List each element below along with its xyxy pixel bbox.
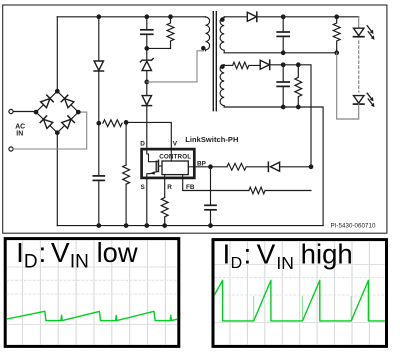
svg-text:S: S [141, 184, 146, 191]
U1 V pin internal [170, 149, 172, 161]
node: output2 load top [297, 63, 301, 67]
wire: zener to mid clamp node [146, 71, 148, 96]
wire: feedback resistor to output2 [265, 190, 311, 192]
capacitor C2 clamp [141, 17, 153, 60]
diode D1 line sense peak detector [94, 61, 103, 71]
diode D5 BP supply [268, 162, 311, 171]
wire: LED2 cathode return [337, 53, 359, 119]
wire: secondary2 return [224, 107, 323, 226]
svg-text:V: V [257, 238, 276, 269]
svg-text:FB: FB [186, 184, 195, 191]
wire: secondary1 top to diode [224, 16, 247, 18]
svg-text::: : [39, 237, 47, 268]
U1 MOSFET gate [155, 161, 157, 171]
U1 MOSFET gate lead [159, 165, 163, 167]
wire: diode D2 to D pin [146, 106, 148, 148]
wire: secondary2 top pin [224, 64, 232, 66]
svg-text:V: V [51, 237, 70, 268]
wire: line sense branch middle [98, 71, 100, 175]
op IC U1 LinkSwitch-PH body [142, 149, 195, 178]
wire: dashed LED string continuation [358, 41, 360, 92]
diode D2 series to drain [142, 96, 151, 106]
capacitor C5 BP [205, 167, 216, 226]
svg-text:R: R [167, 184, 172, 191]
bridge diode bottom-right [61, 116, 74, 129]
node: BP node [209, 165, 213, 169]
wire: FB pin to feedback resistor [183, 179, 249, 191]
node: S at rail [145, 224, 149, 228]
U1 MOSFET source arrow [147, 171, 159, 177]
wire: divider node to V pin [126, 122, 171, 147]
wire: bridge - down to bottom rail [56, 133, 58, 226]
capacitor C4 output2 [277, 65, 289, 107]
wire: divider node down [125, 122, 127, 165]
U1 R pin internal [164, 175, 166, 178]
node: bus at line-sense branch [97, 15, 101, 19]
svg-text:D: D [24, 252, 38, 273]
wire: output2 positive [270, 65, 311, 167]
wire: S pin to rail [146, 179, 148, 226]
node: output2 to BP/FB junction [309, 165, 313, 169]
node: bus at clamp resistor [169, 15, 173, 19]
zener VR1 clamp [140, 59, 153, 71]
resistor R4 bleeder [333, 17, 340, 53]
U1 FB pin internal [182, 175, 184, 178]
svg-text:D: D [231, 255, 243, 272]
resistor R8 feedback [249, 187, 265, 194]
resistor R2 divider lower [123, 165, 130, 184]
wire: R pin stub [164, 179, 166, 198]
scope panel 1 frame [5, 239, 179, 347]
resistor R1 line sense horizontal [103, 120, 122, 127]
node: output1 cap top [281, 15, 285, 19]
scope panel 2 label [223, 238, 353, 273]
resistor R5 output2 series [233, 62, 260, 69]
resistor R6 output2 load [295, 65, 302, 107]
terminal: AC input lower [9, 147, 13, 151]
node: R7 at rail [163, 224, 167, 228]
node: output2 cap top [281, 63, 285, 67]
svg-text:LinkSwitch-PH: LinkSwitch-PH [185, 135, 238, 144]
wire: left vertical from bus to bridge + [56, 17, 58, 91]
svg-text:V: V [173, 140, 178, 147]
svg-text:I: I [16, 237, 24, 268]
wire: clamp RC junction [147, 47, 171, 49]
resistor R9 BP supply [227, 163, 268, 170]
node: bulk cap at rail [97, 224, 101, 228]
wire: R2 to rail [125, 184, 127, 225]
wire: lower AC lead to bridge right corner [13, 112, 87, 149]
wire: line sense branch upper [98, 17, 100, 61]
node: sense divider tap left [97, 121, 101, 125]
transformer T1 primary winding [202, 17, 210, 51]
wire: BP pin to node [195, 166, 227, 168]
scope trace 2: drain current at high input voltage [205, 280, 385, 321]
wire: output1 positive rail [257, 16, 359, 18]
node: C5 at rail [209, 224, 213, 228]
node: clamp mid node [145, 80, 149, 84]
transformer T1 secondary 2 [220, 65, 224, 107]
wire: secondary1 return [224, 52, 337, 54]
LED1 [354, 26, 375, 40]
terminal: AC input upper [9, 109, 13, 113]
node: output1 cap bottom [281, 51, 285, 55]
node: R2 at rail [124, 224, 128, 228]
resistor R7 R-pin program [161, 198, 168, 226]
wire: LED string feed [358, 17, 360, 28]
node: clamp RC junction [145, 47, 149, 51]
U1 internal drain connection [147, 150, 159, 162]
svg-text:BP: BP [197, 160, 207, 167]
U1 CONTROL block [162, 161, 188, 175]
bridge diode top-right [61, 95, 74, 108]
diode D4 output2 rectifier [260, 60, 270, 69]
scope trace 1: drain current at low input voltage [7, 311, 178, 320]
bridge diode top-left [40, 95, 53, 108]
scope panel 2 frame [213, 240, 387, 347]
svg-text:IN: IN [70, 252, 89, 273]
scope panel 1 grid [7, 240, 178, 345]
svg-text:D: D [140, 140, 145, 147]
label: AC IN [15, 124, 25, 138]
resistor R3 clamp [167, 17, 174, 49]
node: V divider junction [124, 121, 128, 125]
capacitor C3 output1 [277, 17, 289, 53]
bridge diode bottom-left [40, 116, 53, 129]
wire: top DC bus rail [57, 16, 205, 18]
scope panel 2 grid [215, 241, 385, 345]
bridge rectifier BR1 diamond [34, 89, 80, 134]
wire: upper AC lead to bridge left corner [13, 111, 36, 113]
schematic frame [3, 5, 387, 233]
svg-text:CONTROL: CONTROL [159, 153, 191, 160]
transformer T1 core [213, 12, 216, 111]
capacitor C1 bulk [93, 176, 104, 226]
scope panel 1 label [16, 237, 138, 273]
U1 BP pin internal [188, 166, 194, 168]
wire: bottom common rail [57, 225, 323, 227]
svg-text:I: I [223, 238, 231, 269]
LED2 [354, 93, 375, 107]
svg-text:high: high [301, 238, 353, 269]
transformer T1 secondary 1 [220, 17, 224, 53]
svg-text::: : [244, 238, 252, 269]
node: output2 cap bottom [281, 105, 285, 109]
svg-text:PI-5430-060710: PI-5430-060710 [331, 223, 376, 230]
node: bleeder top [335, 15, 339, 19]
svg-text:IN: IN [276, 253, 294, 273]
svg-text:IN: IN [16, 131, 23, 138]
node: output2 load bottom [297, 105, 301, 109]
svg-text:low: low [97, 237, 138, 268]
wire: clamp node to primary bottom [147, 51, 204, 82]
diode D3 output1 rectifier [247, 12, 256, 21]
U1 MOSFET channel [157, 160, 159, 171]
node: bus at clamp branch [145, 15, 149, 19]
node: bleeder bottom / LED return [335, 51, 339, 55]
